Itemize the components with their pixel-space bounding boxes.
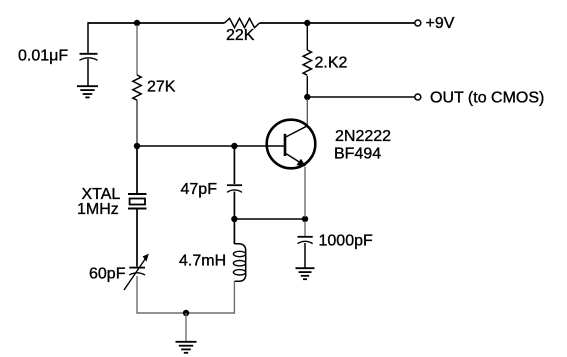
svg-text:+9V: +9V: [426, 15, 455, 32]
transistor Q1 collector diagonal: [286, 126, 308, 137]
wire bottom rail (gray): [136, 312, 235, 314]
junction dot OUT node: [304, 94, 310, 100]
wire 47pF branch lower: [233, 192, 235, 220]
ground under C1: [77, 86, 98, 97]
capacitor 47pF: [227, 185, 242, 192]
junction dot base rail / 47pF: [231, 143, 237, 149]
capacitor 1000pF: [298, 237, 313, 244]
svg-text:2N2222: 2N2222: [335, 128, 391, 145]
transistor Q1 base lead: [267, 145, 285, 147]
svg-text:2.K2: 2.K2: [315, 55, 348, 72]
wire XTAL to 60pF: [136, 209, 138, 267]
wire junction down to 27K (gray): [136, 25, 138, 75]
wire emitter node to 1000pF (gray): [304, 221, 306, 236]
junction dot top rail / R 27K: [134, 20, 140, 26]
junction dot top rail / R 2.K2: [304, 20, 310, 26]
resistor 2.K2: [303, 50, 311, 75]
transistor Q1 emitter arrowhead: [296, 159, 305, 167]
wire to inductor top: [233, 219, 235, 244]
svg-text:1000pF: 1000pF: [319, 233, 373, 250]
junction dot mid node left: [231, 216, 237, 222]
svg-text:60pF: 60pF: [89, 266, 126, 283]
wire top rail left segment: [88, 22, 225, 24]
transistor Q1 emitter diagonal: [286, 154, 305, 166]
svg-text:OUT (to CMOS): OUT (to CMOS): [430, 89, 544, 106]
wire mid node horizontal: [234, 218, 305, 220]
transistor Q1 circle: [267, 120, 316, 169]
capacitor 60pF variable: [124, 254, 149, 290]
wire bottom rail to ground (gray): [185, 313, 187, 341]
wire corner down to C1: [87, 22, 89, 53]
wire OUT node to collector (dark gray): [306, 99, 308, 126]
ground under 1000pF: [296, 268, 315, 279]
wire 47pF branch upper: [233, 146, 235, 184]
svg-text:0.01μF: 0.01μF: [18, 48, 68, 65]
wire 2.K2 to OUT node: [306, 76, 308, 96]
node OUT terminal: [415, 94, 421, 100]
wire 60pF to bottom rail (gray): [136, 276, 138, 313]
wire inductor to bottom rail (gray): [233, 281, 235, 313]
ground bottom center: [176, 342, 197, 353]
svg-text:1MHz: 1MHz: [77, 201, 119, 218]
wire C1 to ground: [87, 59, 89, 86]
wire OUT rail: [307, 96, 414, 98]
svg-text:22K: 22K: [226, 27, 255, 44]
inductor 4.7mH: [233, 244, 245, 282]
wire XTAL branch upper: [136, 146, 138, 193]
resistor 22K: [225, 18, 260, 27]
wire top rail right segment: [260, 22, 415, 24]
svg-text:BF494: BF494: [334, 146, 381, 163]
junction dot base rail left: [134, 143, 140, 149]
wire 1000pF to ground: [304, 243, 306, 268]
junction dot mid node right: [302, 216, 308, 222]
capacitor C1 0.01uF: [80, 54, 98, 60]
svg-text:27K: 27K: [147, 79, 176, 96]
junction dot bottom rail: [183, 310, 189, 316]
crystal XTAL 1MHz: [128, 194, 147, 209]
transistor Q1 base bar: [284, 134, 287, 156]
svg-text:47pF: 47pF: [181, 181, 218, 198]
wire emitter down (gray): [304, 167, 306, 217]
wire top rail to 2.K2: [306, 25, 308, 50]
resistor 27K: [133, 75, 141, 100]
wire 27K to base rail: [136, 100, 138, 146]
node +9V terminal: [415, 20, 421, 26]
wire base rail: [137, 145, 267, 147]
svg-text:4.7mH: 4.7mH: [179, 253, 226, 270]
